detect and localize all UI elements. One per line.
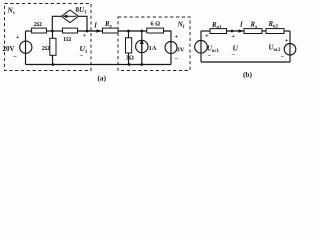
svg-text:−: −: [80, 52, 84, 60]
svg-text:+: +: [231, 33, 235, 40]
svg-text:−: −: [281, 54, 285, 61]
svg-text:2Ω: 2Ω: [42, 45, 50, 52]
svg-text:(b): (b): [243, 70, 252, 79]
svg-text:1Ω: 1Ω: [63, 36, 71, 43]
svg-text:+: +: [175, 33, 179, 40]
svg-text:+: +: [16, 34, 20, 41]
svg-text:−: −: [13, 53, 17, 61]
svg-text:3V: 3V: [177, 47, 185, 54]
svg-text:1A: 1A: [149, 45, 157, 52]
svg-text:+: +: [285, 38, 289, 45]
svg-text:−: −: [208, 53, 212, 60]
svg-text:3Ω: 3Ω: [126, 55, 134, 62]
svg-text:+: +: [205, 33, 209, 40]
svg-text:I: I: [93, 22, 97, 29]
svg-text:2Ω: 2Ω: [34, 21, 42, 28]
svg-text:6 Ω: 6 Ω: [151, 20, 161, 27]
svg-text:20V: 20V: [3, 45, 15, 53]
svg-text:(a): (a): [98, 74, 107, 82]
svg-text:I: I: [239, 22, 243, 29]
svg-text:+: +: [83, 32, 87, 39]
svg-text:−: −: [231, 51, 235, 58]
svg-text:−: −: [175, 56, 179, 63]
